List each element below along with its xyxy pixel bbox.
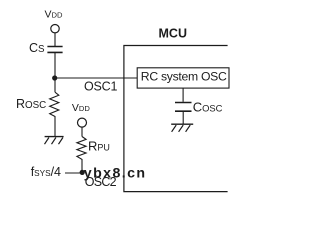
svg-text:COSC: COSC — [193, 99, 223, 114]
svg-text:OSC1: OSC1 — [84, 80, 117, 94]
svg-text:ROSC: ROSC — [16, 97, 46, 111]
svg-text:VDD: VDD — [45, 9, 63, 21]
svg-text:MCU: MCU — [159, 27, 187, 41]
svg-text:RC system OSC: RC system OSC — [141, 69, 227, 83]
svg-text:ybx8.cn: ybx8.cn — [84, 166, 147, 182]
svg-text:VDD: VDD — [72, 102, 90, 114]
svg-text:CS: CS — [29, 41, 45, 55]
